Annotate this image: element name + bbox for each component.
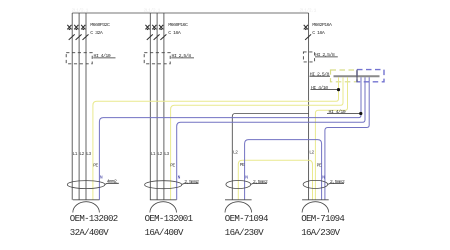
svg-text:4mm2: 4mm2 <box>107 179 117 185</box>
load 4 cable ellipse <box>303 180 328 188</box>
cable label HI 2,5/8 at breaker F2 <box>171 53 194 59</box>
breaker F1 symbol pole 3 <box>81 25 88 40</box>
wire: top supply bus L <box>72 12 308 14</box>
cable label HI 4/10 upper right <box>311 85 339 91</box>
junction dot on PE bundle <box>337 88 340 91</box>
cable label HI 2,5/8 at breaker F3 <box>315 52 338 58</box>
load 1 phase labels L1 L2 L3 <box>73 151 92 157</box>
terminal box N left edge <box>356 70 358 82</box>
svg-text:PE: PE <box>170 163 175 169</box>
breaker F2 label M660P16C / C 16A <box>168 22 188 36</box>
wire: breaker F1 pole 1 / load 1 L1 <box>71 13 73 200</box>
wire: N load 1 (blue) <box>99 77 361 200</box>
wire: N jumper load 3 to load 4 (blue) <box>245 140 322 200</box>
load 2 cable ellipse <box>145 181 182 189</box>
cable marker box HI 2,5/8 at breaker F3 <box>303 52 314 62</box>
wire: load 3 L2 tap from breaker F3 <box>232 114 308 200</box>
svg-text:16A/230V: 16A/230V <box>301 227 340 238</box>
terminal box PE (dashed yellow) <box>331 70 358 82</box>
load 2 cable size leader 2,5mm2 <box>182 179 199 185</box>
svg-text:M660P32C: M660P32C <box>90 22 110 28</box>
load 3 terminal bar <box>225 199 252 201</box>
cable label HI 4/10 at breaker F1 <box>93 53 115 59</box>
breaker F3 label M602P16A / C 16A <box>312 22 332 36</box>
svg-text:PE: PE <box>317 163 322 169</box>
wire: PE load 4 feed (yellow) <box>315 77 347 200</box>
svg-text:OEM-71094: OEM-71094 <box>301 213 344 224</box>
load 1 cable size leader 4mm2 <box>105 179 119 185</box>
ghost reference marks above bus <box>72 8 317 14</box>
breaker F3 symbol <box>304 25 311 40</box>
wire: breaker F2 pole 2 / load 2 L2 <box>156 13 158 200</box>
svg-text:C 32A: C 32A <box>90 30 103 36</box>
wire: PE jumper load 3 to load 4 (yellow) <box>238 160 312 200</box>
cable marker box HI 4/10 at breaker F1 <box>66 53 92 64</box>
svg-text:2,5mm2: 2,5mm2 <box>184 179 199 185</box>
cable label HI 4/10 lower right <box>327 109 361 115</box>
svg-text:16A/400V: 16A/400V <box>145 227 184 238</box>
load 4 terminal bar <box>302 199 329 201</box>
svg-text:16A/230V: 16A/230V <box>225 227 264 238</box>
svg-text:PE: PE <box>93 162 98 168</box>
svg-text:2,5mm2: 2,5mm2 <box>330 179 345 185</box>
svg-text:OEM-132001: OEM-132001 <box>145 213 194 224</box>
svg-text:N: N <box>178 174 181 180</box>
svg-text:L1: L1 <box>73 151 78 157</box>
breaker F2 symbol pole 1 <box>145 25 152 40</box>
svg-text:L2: L2 <box>157 151 162 157</box>
svg-text:L3: L3 <box>164 151 169 157</box>
svg-text:HI 4/10: HI 4/10 <box>329 109 346 115</box>
svg-text:M602P16A: M602P16A <box>312 22 332 28</box>
svg-text:M660P16C: M660P16C <box>168 22 188 28</box>
load 1 socket arc <box>73 202 100 213</box>
svg-text:L3: L3 <box>86 151 91 157</box>
load 3 cable size leader 2,5mm2 <box>251 179 268 185</box>
wire: N load 2 (blue) <box>177 77 365 200</box>
svg-text:PE: PE <box>240 162 245 168</box>
breaker F1 label M660P32C / C 32A <box>90 22 110 36</box>
load 1 cable ellipse <box>67 181 105 189</box>
wire: breaker F2 pole 1 / load 2 L1 <box>149 13 151 200</box>
wire: breaker F1 pole 2 / load 1 L2 <box>78 13 80 200</box>
svg-text:L2: L2 <box>79 151 84 157</box>
svg-text:L2: L2 <box>233 149 238 155</box>
svg-text:L2: L2 <box>309 149 314 155</box>
load 1 terminal bar <box>73 199 100 201</box>
svg-text:C 16A: C 16A <box>312 30 325 36</box>
svg-text:N: N <box>245 174 248 180</box>
svg-text:L1: L1 <box>151 151 156 157</box>
terminal box N (dashed blue) <box>357 70 384 82</box>
wire: breaker F3 pole / load 4 L2 <box>308 13 310 200</box>
load 2 phase labels L1 L2 L3 <box>151 151 170 157</box>
svg-text:2,5mm2: 2,5mm2 <box>253 179 268 185</box>
cable marker box HI 2,5/8 at breaker F2 <box>144 53 170 64</box>
wire: PE load 1 (yellow) <box>93 77 339 200</box>
svg-text:OEM-71094: OEM-71094 <box>225 213 268 224</box>
breaker F1 symbol pole 1 <box>67 25 74 40</box>
svg-text:OEM-132002: OEM-132002 <box>70 213 118 224</box>
svg-text:N: N <box>100 175 103 181</box>
breaker F2 symbol pole 3 <box>159 25 166 40</box>
load 3 cable ellipse <box>226 181 251 189</box>
svg-text:32A/400V: 32A/400V <box>70 227 109 238</box>
breaker F1 symbol pole 2 <box>74 25 81 40</box>
load 3 socket arc <box>225 202 252 213</box>
cable label HI 2,5/8 at terminal bar <box>310 71 331 77</box>
wire: PE load 2 (yellow) <box>171 77 343 200</box>
breaker F2 symbol pole 2 <box>152 25 159 40</box>
terminal bus bar <box>334 75 380 77</box>
svg-text:C 16A: C 16A <box>168 30 181 36</box>
wire: N load 4 feed (blue) <box>325 77 369 200</box>
load 2 socket arc <box>150 202 177 213</box>
wire: breaker F1 pole 3 / load 1 L3 <box>85 13 87 200</box>
load 4 socket arc <box>302 202 329 213</box>
junction dot on N bundle <box>359 112 362 115</box>
load 2 terminal bar <box>150 199 177 201</box>
load 4 cable size leader 2,5mm2 <box>328 179 345 185</box>
wire: breaker F2 pole 3 / load 2 L3 <box>163 13 165 200</box>
